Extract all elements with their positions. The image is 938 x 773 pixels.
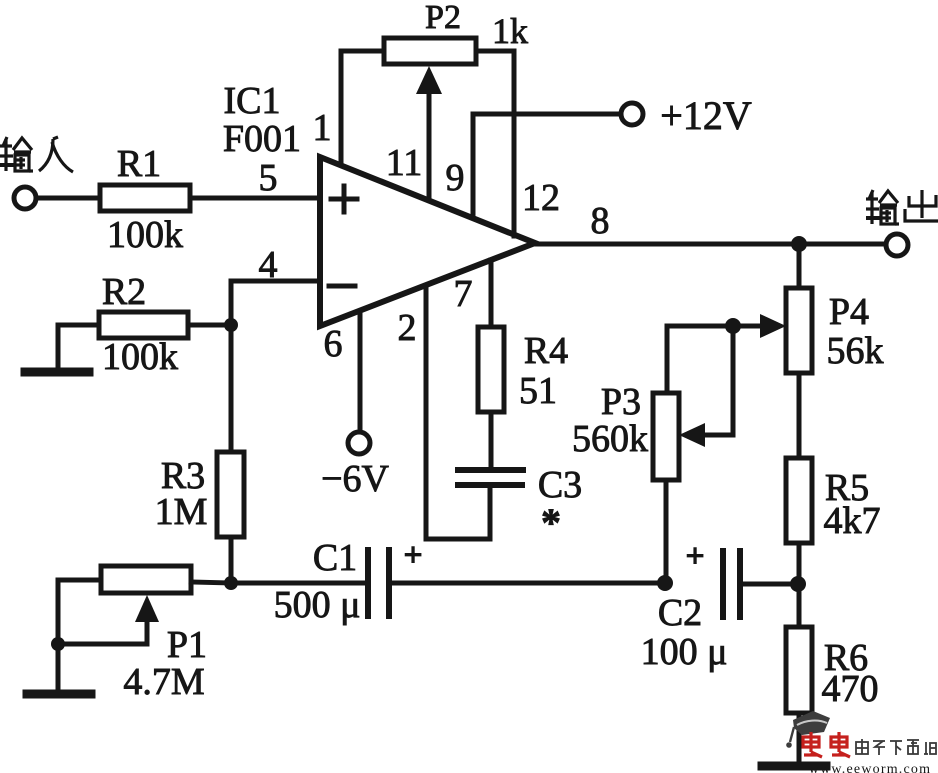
svg-text:C2: C2 [658, 592, 702, 634]
watermark chong-chong red characters [803, 732, 850, 757]
wire P2 right to pin 12 [476, 51, 514, 236]
wire C2 to R5/R6 node [740, 582, 799, 587]
svg-text:+: + [403, 537, 422, 574]
svg-text:F001: F001 [223, 118, 301, 160]
svg-text:5: 5 [259, 157, 278, 199]
svg-text:P2: P2 [425, 0, 461, 36]
svg-text:470: 470 [822, 668, 879, 710]
svg-text:8: 8 [591, 200, 610, 242]
svg-text:P3: P3 [601, 381, 641, 423]
svg-text:560k: 560k [572, 418, 648, 460]
svg-text:+12V: +12V [660, 93, 752, 138]
P3 wiper arrow [703, 326, 733, 435]
potentiometer P3 [653, 393, 679, 480]
wire node to pin 4 [231, 281, 320, 325]
watermark cap icon [786, 711, 830, 748]
resistor R5 [786, 458, 812, 543]
svg-text:www.eeworm.com: www.eeworm.com [809, 762, 931, 773]
svg-text:P4: P4 [829, 291, 869, 333]
svg-text:1: 1 [313, 107, 332, 149]
capacitor C3 [458, 467, 523, 473]
svg-text:4: 4 [259, 244, 278, 286]
wire output node to P4 [797, 244, 802, 288]
junction R2/R3 [224, 318, 238, 332]
ground [25, 368, 89, 377]
svg-text:6: 6 [324, 323, 343, 365]
wire pin 7 to R4 [489, 260, 494, 327]
wire pin 1 to P2 left [341, 51, 384, 165]
svg-text:IC1: IC1 [224, 80, 281, 122]
plus input symbol [331, 197, 357, 202]
svg-text:100k: 100k [107, 214, 183, 256]
wire bottom rail to C1 [231, 581, 368, 586]
watermark site name characters [856, 739, 936, 755]
potentiometer P1 [101, 566, 191, 593]
ground [27, 690, 91, 699]
svg-text:2: 2 [398, 307, 417, 349]
wire R6 to ground [797, 713, 802, 764]
svg-text:1M: 1M [155, 491, 208, 533]
resistor R3 [217, 452, 244, 537]
svg-text:R2: R2 [102, 271, 146, 313]
junction R3/P1/C1 [224, 576, 238, 590]
wire P4 to R5 [797, 373, 802, 458]
capacitor C1 [365, 550, 371, 616]
svg-text:R1: R1 [117, 143, 161, 185]
svg-text:P1: P1 [167, 624, 207, 666]
wire pin 2 to C3 bottom [426, 286, 490, 539]
svg-text:4k7: 4k7 [824, 500, 881, 542]
resistor R1 [100, 185, 190, 211]
resistor R6 [786, 627, 812, 713]
svg-text:100 μ: 100 μ [641, 631, 728, 673]
input terminal [14, 187, 36, 209]
wire R4 to C3 [489, 412, 494, 470]
svg-text:C1: C1 [313, 537, 357, 579]
junction P4 wiper/P3 [725, 318, 741, 334]
P1 wiper arrow [145, 618, 150, 644]
-6V terminal [348, 432, 370, 454]
svg-text:*: * [541, 500, 561, 545]
svg-text:100k: 100k [102, 336, 178, 378]
minus input symbol [329, 284, 355, 289]
svg-text:500 μ: 500 μ [274, 584, 361, 626]
resistor R4 [478, 327, 504, 412]
svg-text:1k: 1k [492, 11, 528, 51]
svg-text:7: 7 [454, 273, 473, 315]
capacitor C2 [720, 551, 726, 617]
junction P1 wiper/ground [51, 637, 65, 651]
wire C1 to C2 [389, 581, 665, 586]
svg-text:56k: 56k [827, 330, 884, 372]
wire R2 left to ground [58, 325, 99, 371]
potentiometer P4 [786, 288, 812, 373]
svg-text:12: 12 [522, 177, 560, 219]
wire wiper node to P3 top [667, 326, 733, 393]
node label output (shu-chu) [866, 190, 938, 224]
resistor R2 [99, 312, 188, 338]
wire node to R3 [229, 325, 234, 452]
junction output/P4 [791, 236, 807, 252]
wire pin 6 to -6V [358, 311, 363, 431]
wire R2 right to node [188, 323, 231, 328]
wire P1 left to ground [58, 580, 101, 692]
wire input to R1 [37, 196, 100, 201]
wire P1 right to node [191, 582, 231, 583]
op-amp IC1 [320, 157, 535, 326]
junction P3/C2 [657, 575, 673, 591]
svg-text:−6V: −6V [321, 458, 389, 500]
wire P1 wiper to ground node [58, 642, 147, 647]
+12V terminal [621, 103, 643, 125]
P2 wiper arrow [427, 90, 432, 200]
svg-text:11: 11 [386, 142, 423, 184]
node label input (shu-ru) [0, 137, 73, 172]
ground [762, 762, 826, 771]
wire pin 9 to +12V [473, 114, 620, 218]
svg-text:+: + [685, 538, 704, 575]
potentiometer P2 [384, 38, 476, 64]
svg-text:51: 51 [519, 370, 557, 412]
output terminal [886, 234, 908, 256]
wire R5 to node [797, 543, 802, 584]
wire R3 to bottom node [229, 537, 234, 583]
wire node to R6 [797, 584, 802, 627]
svg-text:4.7M: 4.7M [123, 661, 204, 703]
svg-text:R4: R4 [524, 330, 568, 372]
wire R1 to pin 5 [190, 196, 320, 201]
junction C2/R5/R6 [790, 576, 806, 592]
wire pin 8 output [535, 242, 885, 247]
P4 wiper arrow [733, 324, 765, 329]
wire P3 bottom to C2 node [664, 480, 669, 583]
svg-text:9: 9 [446, 157, 465, 199]
